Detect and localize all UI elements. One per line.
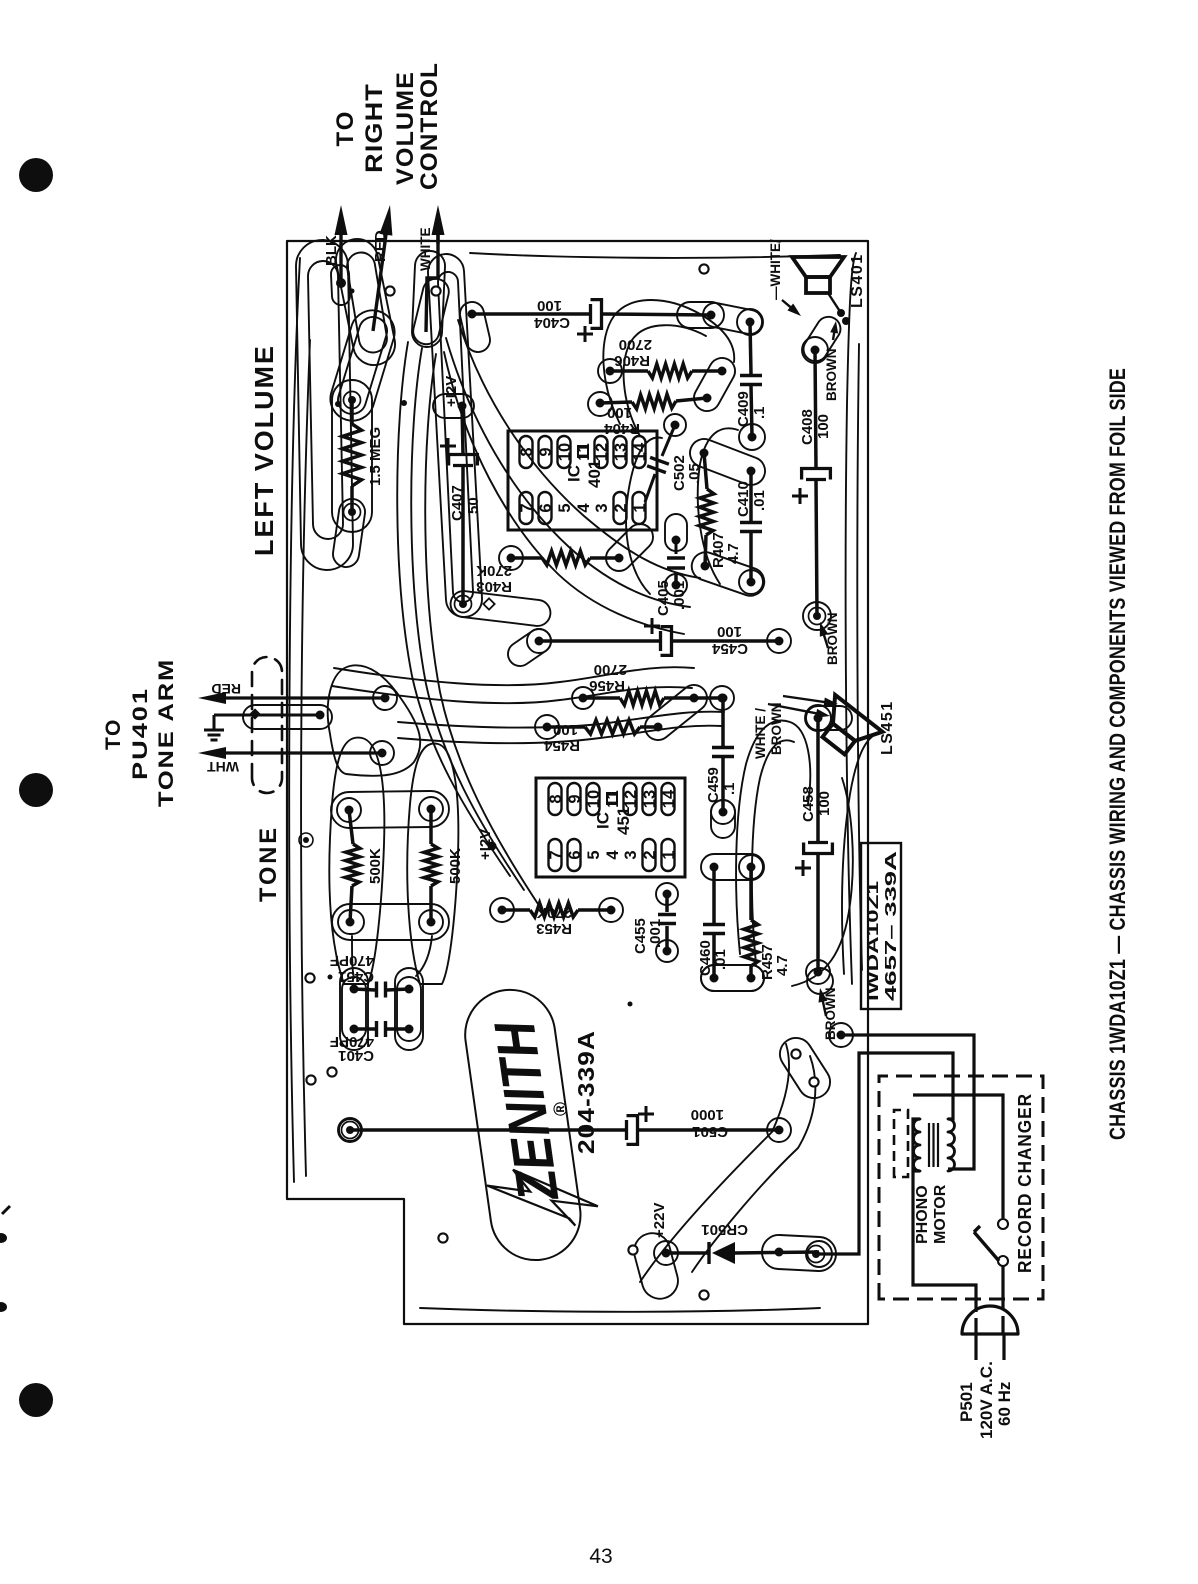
svg-text:C407: C407: [449, 485, 466, 521]
foil island: [419, 797, 443, 821]
wire motor circuit: [913, 1119, 976, 1312]
svg-text:IC: IC: [594, 812, 613, 829]
svg-text:WHITE /: WHITE /: [753, 708, 768, 759]
svg-text:IWDA10Z1: IWDA10Z1: [865, 881, 882, 1001]
capacitor C501 1000: [342, 1122, 359, 1139]
foil island: [634, 1233, 678, 1298]
capacitor C458 100: [814, 714, 823, 723]
svg-text:270K: 270K: [536, 904, 572, 921]
svg-text:R456: R456: [589, 677, 625, 694]
foil link 500K to C451: [352, 936, 354, 978]
svg-text:PU401: PU401: [129, 687, 152, 780]
foil island: [703, 303, 762, 334]
svg-text:.1: .1: [721, 782, 738, 795]
foil island: [451, 591, 551, 626]
svg-text:5: 5: [556, 503, 574, 512]
svg-text:4.7: 4.7: [774, 955, 791, 976]
svg-text:1: 1: [660, 850, 678, 859]
svg-text:BLK: BLK: [323, 235, 340, 266]
foil island: [806, 1241, 832, 1267]
svg-text:14: 14: [660, 789, 678, 808]
svg-text:RED: RED: [211, 681, 241, 697]
resistor R407 4.7: [700, 449, 709, 458]
svg-text:2700: 2700: [619, 336, 652, 353]
resistor R457 4.7: [747, 863, 756, 872]
foil island: [460, 302, 490, 352]
foil island: [490, 898, 514, 922]
svg-text:—WHITE/: —WHITE/: [768, 239, 783, 300]
foil island: [694, 358, 735, 411]
foil highway bundle: [397, 342, 510, 876]
svg-text:10: 10: [556, 443, 574, 461]
foil finger f3 (WHITE pad island): [412, 251, 445, 347]
svg-text:.001: .001: [671, 581, 688, 610]
svg-text:RIGHT: RIGHT: [361, 83, 388, 173]
svg-text:9: 9: [537, 447, 555, 456]
svg-text:270K: 270K: [476, 562, 512, 579]
svg-text:11: 11: [575, 443, 593, 460]
svg-text:CR501: CR501: [701, 1221, 748, 1238]
svg-text:11: 11: [604, 790, 622, 807]
foil traces right lower loops: [736, 721, 810, 954]
foil island: [598, 359, 622, 383]
svg-text:C459: C459: [705, 767, 722, 803]
svg-text:8: 8: [518, 447, 536, 456]
svg-text:1.5 MEG: 1.5 MEG: [367, 427, 384, 486]
diode CR501: [662, 1249, 671, 1258]
foil island: [654, 1241, 678, 1265]
foil island: [339, 1119, 361, 1141]
resistor 500K a: [345, 806, 354, 815]
svg-text:+I2V: +I2V: [443, 376, 460, 407]
capacitor C451 470PF: [350, 985, 359, 994]
foil island: [701, 965, 764, 991]
box 1WDA10Z1 4657-339A: [861, 843, 901, 1009]
foil island: [572, 687, 594, 709]
svg-text:RED: RED: [372, 230, 389, 262]
foil island: [370, 741, 394, 765]
foil island: [338, 1118, 362, 1142]
svg-text:8: 8: [547, 794, 565, 803]
foil island: [413, 279, 449, 344]
shield dashed: [252, 657, 282, 793]
wire WHITE to right volume control: [426, 232, 438, 332]
capacitor C409 .1: [746, 318, 755, 327]
svg-text:R404: R404: [603, 420, 640, 437]
svg-text:C404: C404: [533, 314, 570, 331]
plug P501: [962, 1332, 1018, 1335]
edge mark 1: [2, 1206, 10, 1214]
foil island: [333, 499, 365, 567]
transformer dashed core box: [894, 1110, 908, 1177]
svg-text:+22V: +22V: [651, 1203, 668, 1238]
PCB board outline: [287, 241, 868, 1324]
svg-text:4: 4: [604, 850, 622, 860]
resistor R453 270K: [498, 906, 507, 915]
record changer dashed box: [879, 1076, 1043, 1299]
foil island: [701, 965, 764, 991]
foil island: [806, 706, 852, 730]
foil island: [677, 302, 724, 328]
svg-text:P501: P501: [957, 1382, 976, 1422]
capacitor C404 100: [468, 310, 477, 319]
svg-text:4.7: 4.7: [725, 543, 742, 564]
svg-text:CONTROL: CONTROL: [416, 62, 443, 190]
svg-text:R403: R403: [476, 578, 512, 595]
svg-text:204-339A: 204-339A: [573, 1030, 599, 1154]
foil island: [807, 968, 833, 994]
resistor 500K b: [427, 805, 436, 814]
speaker LS401: [792, 257, 844, 293]
svg-text:C410: C410: [735, 481, 752, 517]
capacitor C459 .1: [719, 694, 728, 703]
foil island: [664, 414, 686, 436]
foil trace contour right edge: [470, 253, 840, 258]
wire BLK to right volume control: [336, 278, 346, 288]
svg-text:®: ®: [551, 1102, 572, 1116]
svg-text:WHT: WHT: [207, 759, 239, 775]
svg-text:6: 6: [537, 503, 555, 512]
svg-text:BROWN: BROWN: [824, 349, 839, 402]
foil contour D cluster outline: [329, 738, 384, 984]
foil island: [711, 800, 735, 824]
foil island: [397, 977, 421, 1041]
Zenith logo: [459, 981, 604, 1265]
capacitor C460 .01: [710, 863, 719, 872]
IC401: [508, 431, 657, 530]
foil finger f2 (RED pad island): [347, 253, 387, 353]
foil island: [656, 883, 678, 905]
svg-text:BROWN: BROWN: [769, 703, 784, 756]
svg-text:100: 100: [537, 297, 562, 314]
wire A from pad to transformer: [837, 1031, 846, 1040]
foil island: [665, 574, 687, 596]
svg-text:2: 2: [612, 503, 630, 512]
foil fingers C451/C401: [340, 968, 368, 1050]
foil island: [508, 629, 551, 666]
foil loop around C405/C502: [626, 437, 662, 594]
foil island: [692, 552, 765, 595]
switch: [998, 1219, 1008, 1229]
capacitor C407 50: [458, 402, 467, 411]
IC451: [536, 778, 685, 877]
svg-text:43: 43: [589, 1545, 612, 1568]
foil island: [701, 854, 764, 880]
svg-text:C501: C501: [692, 1123, 728, 1140]
svg-text:R406: R406: [614, 352, 650, 369]
foil contour around tone-arm pads: [328, 665, 420, 775]
svg-text:7: 7: [547, 850, 565, 859]
svg-text:4657– 339A: 4657– 339A: [883, 850, 900, 1001]
svg-text:.05: .05: [686, 463, 703, 484]
svg-text:IC: IC: [565, 465, 584, 482]
wire RED to tone arm: [381, 694, 390, 703]
capacitor C455 .001: [663, 890, 672, 899]
foil island: [243, 705, 332, 729]
foil island: [656, 940, 678, 962]
resistor R456 2700: [579, 694, 588, 703]
svg-text:VOLUME: VOLUME: [392, 71, 419, 185]
svg-text:MOTOR: MOTOR: [932, 1184, 949, 1244]
wire B from CR501 pad to transformer: [819, 1053, 953, 1254]
foil island: [780, 1038, 830, 1098]
transformer: [914, 1119, 920, 1171]
svg-text:LEFT VOLUME: LEFT VOLUME: [249, 344, 279, 556]
ground: [213, 715, 216, 730]
svg-text:TONE: TONE: [255, 825, 282, 902]
foil island: [804, 317, 841, 361]
vias: [628, 1245, 637, 1254]
foil island: [342, 977, 366, 1041]
foil island: [419, 910, 443, 934]
foil island: [331, 791, 449, 828]
svg-text:451: 451: [614, 807, 633, 835]
svg-text:C458: C458: [800, 786, 817, 822]
foil island: [710, 686, 734, 710]
foil island: [805, 705, 831, 731]
svg-text:.01: .01: [751, 490, 768, 511]
svg-text:100: 100: [553, 721, 578, 738]
svg-text:100: 100: [816, 791, 833, 816]
wire bus to switch: [913, 1095, 1003, 1218]
svg-text:C451: C451: [338, 968, 374, 985]
svg-text:3: 3: [593, 503, 611, 512]
svg-text:470PF: 470PF: [330, 952, 374, 969]
svg-text:100: 100: [717, 623, 742, 640]
svg-text:C408: C408: [799, 409, 816, 445]
svg-text:3: 3: [622, 850, 640, 859]
svg-text:50: 50: [465, 497, 482, 514]
foil island: [739, 570, 763, 594]
foil traces center verticals (tone to IC451): [332, 686, 692, 703]
foil island: [739, 424, 765, 450]
svg-text:13: 13: [641, 790, 659, 808]
svg-text:RECORD CHANGER: RECORD CHANGER: [1015, 1093, 1035, 1273]
foil island: [330, 310, 394, 420]
svg-text:9: 9: [566, 794, 584, 803]
svg-text:C409: C409: [735, 391, 752, 427]
foil island: [665, 514, 687, 551]
foil island: [588, 392, 612, 416]
foil island: [803, 602, 831, 630]
capacitor C405 .001: [674, 572, 678, 585]
svg-text:TO: TO: [102, 718, 125, 750]
foil island: [599, 898, 623, 922]
foil island: [737, 309, 763, 335]
svg-text:TO: TO: [332, 110, 359, 147]
svg-text:12: 12: [622, 790, 640, 808]
svg-text:100: 100: [607, 404, 632, 421]
foil loop around C409/R406 cluster: [603, 300, 734, 424]
punch hole 2: [19, 773, 53, 807]
svg-text:BROWN: BROWN: [825, 613, 840, 666]
svg-text:CHASSIS 1WDA10Z1 — CHASSIS WIR: CHASSIS 1WDA10Z1 — CHASSIS WIRING AND CO…: [1105, 368, 1130, 1140]
foil island: [337, 798, 361, 822]
svg-text:C405: C405: [655, 580, 672, 616]
svg-text:120V A.C.: 120V A.C.: [977, 1361, 996, 1439]
svg-text:LS451: LS451: [879, 700, 896, 755]
svg-text:12: 12: [593, 443, 611, 461]
foil island: [338, 317, 387, 414]
capacitor C401 470PF: [350, 1025, 359, 1034]
foil island: [373, 686, 397, 710]
foil island: [739, 855, 763, 879]
punch hole 1: [19, 158, 53, 192]
foil island: [767, 629, 791, 653]
edge mark 2: [0, 1233, 7, 1243]
foil island: [527, 629, 551, 653]
foil island: [829, 1023, 853, 1047]
foil island: [802, 337, 828, 363]
svg-text:1: 1: [631, 503, 649, 512]
capacitor C410 .01: [747, 467, 756, 476]
foil island: [332, 904, 449, 940]
foil island: [332, 380, 372, 532]
foil island: [433, 394, 474, 418]
resistor R404 100: [596, 399, 605, 408]
svg-text:LS401: LS401: [849, 253, 866, 308]
resistor R403 270K: [507, 554, 516, 563]
svg-text:R453: R453: [536, 920, 572, 937]
svg-text:10: 10: [585, 790, 603, 808]
tiny dots: [335, 401, 341, 407]
svg-text:5: 5: [585, 850, 603, 859]
svg-text:WHITE: WHITE: [418, 228, 433, 272]
resistor 1.5MEG: [344, 392, 361, 409]
foil island: [690, 439, 765, 485]
svg-text:6: 6: [566, 850, 584, 859]
foil loop around C410/R407: [698, 428, 738, 584]
svg-text:14: 14: [631, 442, 649, 461]
foil island: [338, 910, 364, 934]
svg-text:13: 13: [612, 443, 630, 461]
svg-text:500K: 500K: [367, 848, 384, 884]
svg-text:500K: 500K: [447, 848, 464, 884]
wire WHT to tone arm: [378, 749, 387, 758]
punch hole 3: [19, 1383, 53, 1417]
foil contour around C458/LS451: [842, 734, 876, 974]
svg-text:.001: .001: [647, 919, 664, 948]
svg-text:R454: R454: [543, 737, 580, 754]
foil finger f1 (1.5MEG island, double outline): [296, 240, 353, 570]
foil island: [711, 800, 735, 838]
svg-text:1000: 1000: [691, 1106, 724, 1123]
resistor R406 2700: [606, 367, 615, 376]
foil trace left wide stem: [640, 1044, 789, 1282]
svg-text:2700: 2700: [594, 661, 627, 678]
svg-text:401: 401: [585, 460, 604, 488]
foil traces diagonal midboard: [446, 338, 690, 607]
foil island: [767, 1118, 791, 1142]
svg-text:2: 2: [641, 850, 659, 859]
foil finger f4 (C407 long island, double outline): [428, 254, 482, 617]
svg-text:.1: .1: [751, 406, 768, 419]
foil island: [606, 524, 653, 571]
svg-text:PHONO: PHONO: [914, 1185, 931, 1244]
speaker LS451: [810, 695, 883, 764]
foil island: [762, 1235, 836, 1271]
svg-text:100: 100: [815, 414, 832, 439]
foil trace contour along bottom edge: [846, 253, 856, 984]
svg-text:.01: .01: [712, 949, 729, 970]
foil contour upper-left of region D: [289, 258, 300, 1182]
svg-text:C454: C454: [711, 640, 748, 657]
svg-text:4: 4: [575, 503, 593, 513]
edge mark 3: [0, 1302, 7, 1312]
svg-text:C401: C401: [338, 1047, 374, 1064]
foil island: [499, 546, 523, 570]
capacitor C408 100: [811, 346, 820, 355]
capacitor C454 100: [535, 637, 544, 646]
foil island: [645, 685, 707, 740]
wire RED to right volume control: [373, 231, 387, 331]
resistor R454 100: [543, 723, 552, 732]
foil island: [535, 715, 559, 739]
foil island: [806, 960, 830, 984]
svg-text:7: 7: [518, 503, 536, 512]
svg-text:60 Hz: 60 Hz: [995, 1382, 1014, 1426]
svg-text:TONE ARM: TONE ARM: [155, 658, 178, 807]
capacitor C502 .05: [662, 425, 675, 456]
